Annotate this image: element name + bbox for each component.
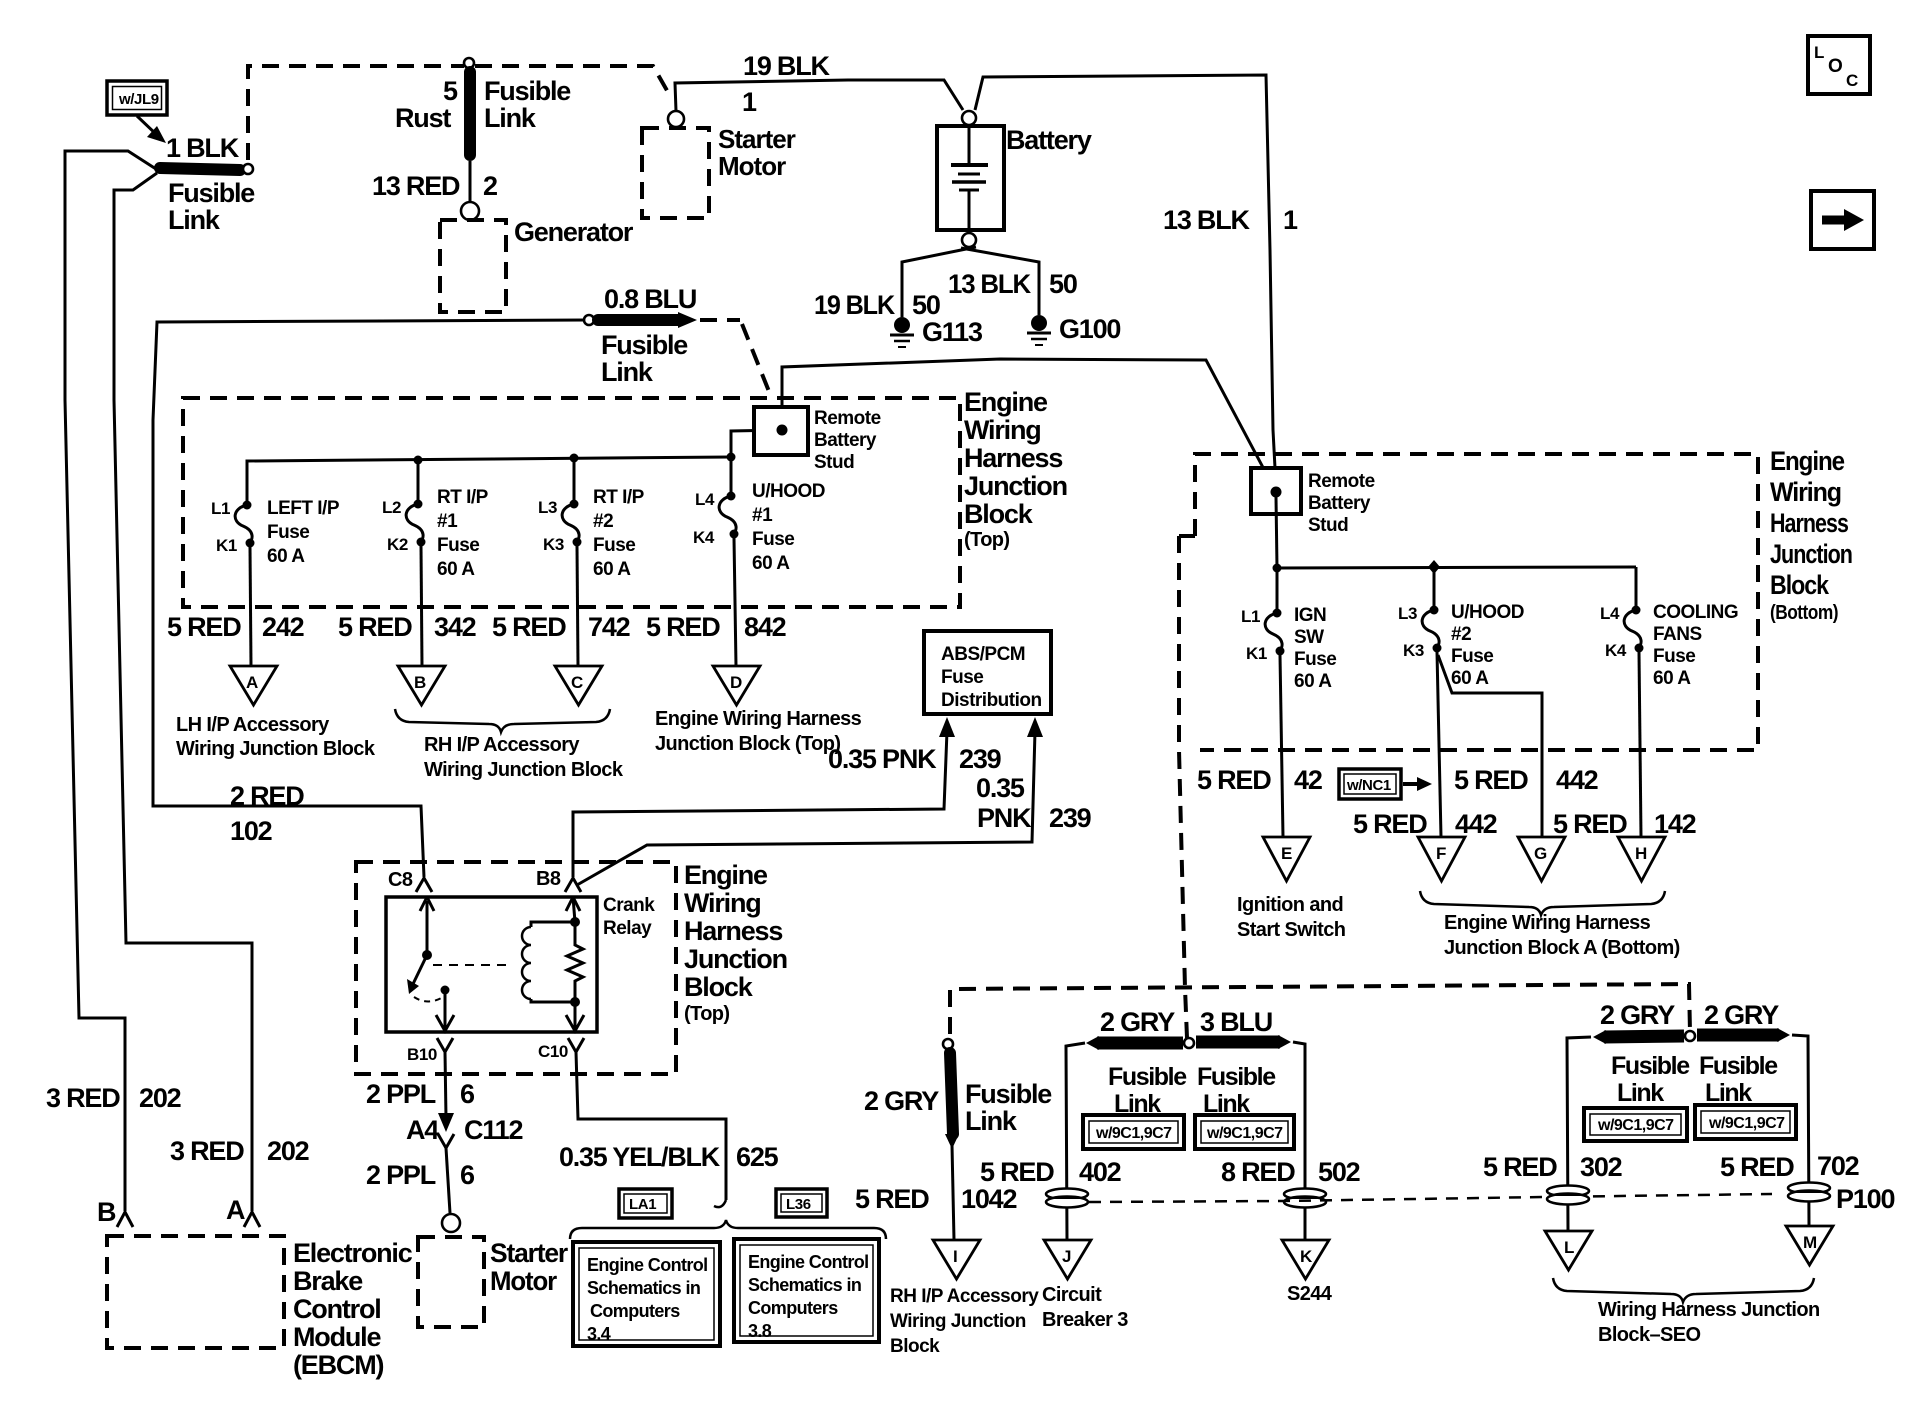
w/JL9 option box <box>107 81 167 115</box>
svg-text:Stud: Stud <box>814 452 854 473</box>
svg-text:U/HOOD: U/HOOD <box>1451 602 1524 623</box>
label Engine Wiring Harness Junction Block (Bottom) <box>1770 446 1852 624</box>
svg-text:#2: #2 <box>593 511 613 532</box>
svg-text:Block: Block <box>1770 570 1830 600</box>
battery box <box>937 126 1004 230</box>
svg-text:A: A <box>226 1195 245 1225</box>
label A4 C112 <box>406 1115 522 1145</box>
svg-text:Junction Block (Top): Junction Block (Top) <box>655 733 840 755</box>
svg-text:60 A: 60 A <box>1451 668 1489 689</box>
svg-text:Motor: Motor <box>490 1266 558 1296</box>
svg-text:102: 102 <box>230 816 272 846</box>
connector fork C8 <box>416 878 432 892</box>
svg-text:#1: #1 <box>437 511 458 532</box>
svg-text:Block–SEO: Block–SEO <box>1598 1324 1700 1346</box>
svg-text:60 A: 60 A <box>267 546 305 567</box>
fuse RT I/P #1 60A <box>406 460 425 547</box>
svg-text:Fuse: Fuse <box>437 535 479 556</box>
label 5 RED 302 <box>1483 1152 1622 1182</box>
fusible link (1 BLK) <box>160 164 253 174</box>
arrow into ABS/PCM (right) <box>1027 717 1043 737</box>
fusible link (5 Rust), vertical <box>464 58 474 155</box>
svg-text:(EBCM): (EBCM) <box>293 1350 383 1380</box>
svg-text:Brake: Brake <box>293 1266 363 1296</box>
fuse U/HOOD #1 60A <box>719 457 738 539</box>
wire bus to remote battery stud <box>731 430 780 457</box>
svg-text:842: 842 <box>744 612 786 642</box>
svg-text:C: C <box>1846 71 1858 90</box>
svg-text:K4: K4 <box>693 528 715 547</box>
connector triangle A <box>230 666 277 705</box>
starter motor dashed box (bottom) <box>418 1237 484 1327</box>
svg-text:B: B <box>414 673 426 692</box>
svg-text:2 PPL: 2 PPL <box>366 1160 436 1190</box>
engine wiring harness junction block (top) crank relay dashed box <box>356 862 676 1074</box>
svg-text:K1: K1 <box>216 536 237 555</box>
connector triangle B <box>398 666 445 705</box>
connector fork B8 <box>565 878 581 892</box>
wire K3 to C <box>577 546 578 666</box>
svg-text:Junction: Junction <box>964 471 1067 501</box>
w/9C1,9C7 tag box (left) <box>1083 1115 1184 1149</box>
svg-text:K4: K4 <box>1605 641 1627 660</box>
connector triangle D <box>713 666 760 705</box>
svg-text:A: A <box>246 673 258 692</box>
wire stud to bus 2 <box>1276 497 1277 568</box>
label 5 RED 842 <box>646 612 786 642</box>
label Fusible Link (SEO left) <box>1611 1052 1690 1107</box>
svg-text:(Top): (Top) <box>684 1003 730 1025</box>
wire 0.8 BLU feed (left horizontal + left vertical down to 2 RED) <box>153 320 586 877</box>
svg-text:K3: K3 <box>1403 641 1424 660</box>
svg-text:8 RED: 8 RED <box>1221 1157 1295 1187</box>
svg-text:Engine Control: Engine Control <box>587 1255 708 1275</box>
svg-text:Schematics in: Schematics in <box>748 1275 861 1295</box>
label L1 K1 <box>211 499 237 555</box>
svg-text:13 BLK: 13 BLK <box>948 269 1032 299</box>
svg-text:Wiring Junction Block: Wiring Junction Block <box>176 738 376 760</box>
w/9C1,9C7 tag box (right) <box>1195 1115 1294 1149</box>
inline connector at M / P100 <box>1788 1183 1830 1202</box>
w/9C1,9C7 tag box (SEO right) <box>1695 1105 1796 1139</box>
label 5 RED 442 (lower) <box>1353 809 1497 839</box>
svg-text:C: C <box>571 673 583 692</box>
svg-text:L36: L36 <box>786 1196 811 1213</box>
svg-text:A4: A4 <box>406 1115 439 1145</box>
label L4 K4 (bottom block) <box>1600 604 1627 660</box>
label 5 RED 342 <box>338 612 476 642</box>
svg-text:442: 442 <box>1556 765 1598 795</box>
wire K2 to B <box>421 546 422 666</box>
svg-text:B8: B8 <box>536 868 561 890</box>
svg-text:1 BLK: 1 BLK <box>166 133 240 163</box>
svg-text:Engine: Engine <box>1770 446 1845 476</box>
connector triangle H <box>1618 837 1665 881</box>
svg-text:w/NC1: w/NC1 <box>1346 777 1391 794</box>
svg-text:5 RED: 5 RED <box>1483 1152 1557 1182</box>
LA1 tag box <box>619 1189 672 1218</box>
svg-text:G113: G113 <box>922 317 983 347</box>
svg-text:Fuse: Fuse <box>593 535 635 556</box>
node fusible link junction <box>1184 1038 1194 1048</box>
svg-text:625: 625 <box>736 1142 779 1172</box>
svg-text:Harness: Harness <box>1770 508 1848 538</box>
fuse U/HOOD #2 60A <box>1422 567 1441 653</box>
svg-text:Fusible: Fusible <box>965 1079 1052 1109</box>
connector triangle C <box>555 666 602 705</box>
label Engine Wiring Harness Junction Block (Top) <box>964 387 1067 551</box>
wire end squiggle <box>714 1200 726 1207</box>
label Starter Motor <box>718 124 796 181</box>
svg-text:IGN: IGN <box>1294 605 1326 626</box>
label Electronic Brake Control Module (EBCM) <box>293 1238 413 1380</box>
svg-text:Battery: Battery <box>814 430 877 451</box>
label 5 RED 702 <box>1720 1151 1859 1182</box>
remote battery stud (engine compartment) <box>754 407 808 455</box>
label 5 RED 42 <box>1197 765 1322 795</box>
label L1 K1 (bottom block) <box>1241 607 1267 663</box>
svg-text:5 RED: 5 RED <box>492 612 566 642</box>
svg-text:Computers: Computers <box>590 1301 680 1321</box>
svg-text:K3: K3 <box>543 535 564 554</box>
label 5 RED 442 (upper) <box>1454 765 1598 795</box>
svg-text:202: 202 <box>139 1083 181 1113</box>
connector C112 <box>438 1113 454 1148</box>
label Fusible Link (SEO right) <box>1699 1052 1778 1107</box>
bus wire in bottom junction block <box>1277 567 1636 568</box>
node bus2 mid <box>1428 560 1440 574</box>
wire 19 BLK (starter to battery to 13 BLK) <box>675 80 963 111</box>
svg-text:Fusible: Fusible <box>168 178 255 208</box>
label 5 RED 242 <box>167 612 304 642</box>
svg-text:P100: P100 <box>1836 1184 1894 1214</box>
svg-text:302: 302 <box>1580 1152 1622 1182</box>
svg-text:L1: L1 <box>1241 607 1260 626</box>
svg-text:RT I/P: RT I/P <box>593 487 645 508</box>
engine control schematics box 3.8 <box>734 1239 879 1342</box>
svg-text:F: F <box>1436 844 1446 863</box>
label U/HOOD #1 Fuse 60 A <box>752 481 825 574</box>
svg-text:702: 702 <box>1817 1151 1859 1181</box>
svg-text:239: 239 <box>959 744 1002 774</box>
svg-text:242: 242 <box>262 612 304 642</box>
svg-text:5 RED: 5 RED <box>1197 765 1271 795</box>
svg-text:502: 502 <box>1318 1157 1360 1187</box>
svg-text:5 RED: 5 RED <box>980 1157 1054 1187</box>
svg-text:G: G <box>1534 844 1547 863</box>
svg-text:H: H <box>1635 844 1647 863</box>
arrow from w/JL9 box to fusible link label <box>137 116 166 143</box>
svg-text:Fusible: Fusible <box>601 330 688 360</box>
svg-text:Battery: Battery <box>1006 125 1092 155</box>
battery bottom terminal circle <box>962 233 976 247</box>
svg-text:1: 1 <box>1283 205 1298 235</box>
svg-text:Fuse: Fuse <box>1451 646 1493 667</box>
svg-text:C10: C10 <box>538 1042 568 1061</box>
svg-text:ABS/PCM: ABS/PCM <box>941 644 1025 665</box>
fuse RT I/P #2 60A <box>562 458 581 547</box>
svg-text:239: 239 <box>1049 803 1092 833</box>
svg-text:2 PPL: 2 PPL <box>366 1079 436 1109</box>
svg-text:Wiring: Wiring <box>964 415 1041 445</box>
fusible link 2 GRY (SEO right) <box>1697 1028 1790 1042</box>
label U/HOOD #2 Fuse 60 A <box>1451 602 1524 689</box>
svg-text:LA1: LA1 <box>629 1196 656 1213</box>
label 5 RED 402 <box>980 1157 1121 1187</box>
label 0.35 PNK 239 <box>828 744 1002 774</box>
wire B8 to ABS/PCM (0.35 PNK 239) <box>573 731 947 877</box>
label Engine Wiring Harness Junction Block (Top) under D <box>655 708 862 755</box>
svg-text:Relay: Relay <box>603 918 652 939</box>
svg-text:COOLING: COOLING <box>1653 602 1738 623</box>
svg-text:Engine: Engine <box>684 860 768 890</box>
label Fusible Link (0.8 BLU) <box>601 330 688 387</box>
svg-text:202: 202 <box>267 1136 309 1166</box>
svg-text:442: 442 <box>1455 809 1497 839</box>
svg-text:w/9C1,9C7: w/9C1,9C7 <box>1597 1117 1674 1134</box>
label RT I/P #1 Fuse 60 A <box>437 487 489 580</box>
node L3 feed <box>570 454 579 463</box>
label 3 RED 202 (right) <box>170 1136 309 1166</box>
label 0.35 YEL/BLK 625 <box>559 1142 779 1172</box>
svg-text:Block: Block <box>964 499 1034 529</box>
svg-text:K1: K1 <box>1246 644 1267 663</box>
svg-text:60 A: 60 A <box>1653 668 1691 689</box>
brace RH I/P accessory <box>395 709 610 732</box>
relay resistor <box>567 917 583 1007</box>
svg-text:L3: L3 <box>538 498 557 517</box>
svg-text:42: 42 <box>1294 765 1322 795</box>
svg-text:Link: Link <box>965 1106 1018 1136</box>
svg-text:1: 1 <box>742 87 757 117</box>
svg-text:Distribution: Distribution <box>941 690 1042 711</box>
inline connector at J <box>1046 1189 1088 1208</box>
label 5 RED 742 <box>492 612 630 642</box>
svg-text:Block: Block <box>684 972 754 1002</box>
svg-text:0.35 PNK: 0.35 PNK <box>828 744 937 774</box>
svg-text:5 RED: 5 RED <box>1553 809 1627 839</box>
svg-text:6: 6 <box>460 1079 475 1109</box>
relay switch arm <box>407 897 450 1002</box>
connector triangle M <box>1786 1226 1833 1265</box>
label 3 RED 202 (left) <box>46 1083 181 1113</box>
svg-text:2 RED: 2 RED <box>230 781 304 811</box>
svg-text:Motor: Motor <box>718 151 786 181</box>
ground wire crossing to G100 <box>961 248 1039 315</box>
svg-text:D: D <box>730 673 742 692</box>
svg-text:Fusible: Fusible <box>484 76 571 106</box>
label L2 K2 <box>382 498 408 554</box>
svg-text:RT I/P: RT I/P <box>437 487 489 508</box>
svg-text:19 BLK: 19 BLK <box>743 51 831 81</box>
svg-text:Circuit: Circuit <box>1042 1284 1102 1306</box>
svg-text:Link: Link <box>168 205 221 235</box>
svg-text:Computers: Computers <box>748 1298 838 1318</box>
label Starter Motor (bottom) <box>490 1238 569 1296</box>
ground wire crossing to G113 <box>902 247 976 317</box>
engine control schematics box 3.4 <box>573 1242 720 1346</box>
label Wiring Harness Junction Block-SEO <box>1598 1299 1820 1346</box>
connector fork B <box>117 1212 133 1227</box>
svg-text:Engine: Engine <box>964 387 1048 417</box>
starter motor dashed box <box>642 128 709 218</box>
brace wiring harness junction block SEO <box>1553 1278 1814 1302</box>
svg-text:60 A: 60 A <box>593 559 631 580</box>
svg-text:60 A: 60 A <box>752 553 790 574</box>
svg-text:60 A: 60 A <box>437 559 475 580</box>
svg-text:Junction: Junction <box>684 944 787 974</box>
dashed link switch to coil <box>433 964 512 966</box>
LOC legend box <box>1808 36 1870 94</box>
label Circuit Breaker 3 <box>1042 1284 1128 1331</box>
w/NC1 option box with arrow <box>1339 769 1432 799</box>
svg-text:Breaker 3: Breaker 3 <box>1042 1309 1128 1331</box>
svg-text:w/9C1,9C7: w/9C1,9C7 <box>1095 1125 1172 1142</box>
label 5 RED 142 <box>1553 809 1696 839</box>
bus wire in junction block <box>247 457 731 505</box>
svg-text:LEFT I/P: LEFT I/P <box>267 498 340 519</box>
svg-text:5 RED: 5 RED <box>646 612 720 642</box>
generator dashed box <box>440 220 506 312</box>
svg-text:Fusible: Fusible <box>1108 1063 1187 1091</box>
label 2 RED 102 <box>230 781 304 846</box>
svg-text:L1: L1 <box>211 499 230 518</box>
label Ignition and Start Switch <box>1237 894 1345 941</box>
relay B8 pin <box>566 897 580 922</box>
svg-text:13 RED: 13 RED <box>372 171 460 201</box>
wire 13 RED 2 (link to generator) <box>469 161 472 202</box>
svg-text:Stud: Stud <box>1308 515 1348 536</box>
svg-text:3 BLU: 3 BLU <box>1200 1007 1272 1037</box>
connector triangle I <box>933 1240 980 1279</box>
svg-text:w/9C1,9C7: w/9C1,9C7 <box>1206 1125 1283 1142</box>
battery cell symbol <box>951 126 988 230</box>
fusible link 2 GRY (vertical) <box>943 1039 959 1149</box>
svg-text:Engine Wiring Harness: Engine Wiring Harness <box>655 708 862 730</box>
generator terminal circle <box>461 202 479 220</box>
connector triangle E <box>1263 837 1310 881</box>
svg-text:50: 50 <box>912 290 940 320</box>
wire K3 to G <box>1438 655 1542 837</box>
crank relay box <box>386 897 597 1032</box>
label 13 RED 2 <box>372 171 497 201</box>
svg-text:0.35: 0.35 <box>976 773 1025 803</box>
inline connector at K <box>1284 1189 1326 1208</box>
svg-text:Link: Link <box>1617 1079 1664 1107</box>
wire SEO right link to M <box>1792 1035 1809 1226</box>
svg-text:60 A: 60 A <box>1294 671 1332 692</box>
w/9C1,9C7 tag box (SEO left) <box>1584 1108 1687 1141</box>
svg-text:Fuse: Fuse <box>267 522 309 543</box>
label 13 BLK 50 <box>948 269 1077 299</box>
starter motor terminal circle <box>668 111 684 127</box>
svg-text:L3: L3 <box>1398 604 1417 623</box>
dashed feed line to bottom fusible links <box>950 984 1690 1034</box>
svg-text:3.8: 3.8 <box>748 1321 772 1341</box>
svg-text:LH I/P Accessory: LH I/P Accessory <box>176 714 330 736</box>
svg-text:Rust: Rust <box>395 103 451 133</box>
svg-text:Wiring: Wiring <box>1770 477 1841 507</box>
label COOLING FANS Fuse 60 A <box>1653 602 1738 689</box>
L36 tag box <box>776 1189 827 1217</box>
svg-text:L: L <box>1564 1238 1574 1257</box>
svg-text:Schematics in: Schematics in <box>587 1278 700 1298</box>
connector fork B10 <box>437 1038 453 1052</box>
connector fork A <box>244 1212 260 1227</box>
wire B8 diagonal to ABS/PCM (second 0.35 PNK 239) <box>577 731 1035 885</box>
node stud feed <box>727 453 736 462</box>
next-page arrow box <box>1811 191 1874 249</box>
svg-text:5 RED: 5 RED <box>167 612 241 642</box>
svg-text:(Bottom): (Bottom) <box>1770 602 1838 624</box>
label IGN SW Fuse 60 A <box>1294 605 1336 692</box>
wire K3 to F <box>1437 652 1441 837</box>
fuse LEFT I/P 60A <box>235 501 254 548</box>
label 5 Rust <box>395 76 458 133</box>
svg-text:742: 742 <box>588 612 630 642</box>
svg-text:Ignition and: Ignition and <box>1237 894 1343 916</box>
label 2 PPL 6 (upper) <box>366 1079 475 1109</box>
svg-text:2 GRY: 2 GRY <box>1704 1000 1779 1030</box>
relay C10 pin output <box>566 1002 584 1031</box>
svg-text:Wiring Junction: Wiring Junction <box>890 1311 1026 1332</box>
svg-text:5 RED: 5 RED <box>855 1184 929 1214</box>
svg-text:Harness: Harness <box>964 443 1062 473</box>
svg-text:L: L <box>1814 43 1824 62</box>
svg-text:C8: C8 <box>388 869 413 891</box>
svg-text:SW: SW <box>1294 627 1324 648</box>
svg-text:L4: L4 <box>695 490 715 509</box>
dashed splice line <box>1089 1194 1772 1202</box>
svg-text:Wiring: Wiring <box>684 888 761 918</box>
svg-text:50: 50 <box>1049 269 1077 299</box>
label LEFT I/P Fuse 60 A <box>267 498 340 567</box>
svg-text:2 GRY: 2 GRY <box>1100 1007 1175 1037</box>
svg-text:U/HOOD: U/HOOD <box>752 481 825 502</box>
svg-text:O: O <box>1828 56 1842 77</box>
connector triangle J <box>1044 1240 1091 1279</box>
svg-text:RH I/P Accessory: RH I/P Accessory <box>424 734 580 756</box>
label LH I/P Accessory Wiring Junction Block <box>176 714 376 760</box>
label 2 PPL 6 (lower) <box>366 1160 475 1190</box>
connector triangle L <box>1545 1231 1592 1270</box>
svg-text:Crank: Crank <box>603 895 655 916</box>
label RT I/P #2 Fuse 60 A <box>593 487 645 580</box>
svg-text:Fuse: Fuse <box>752 529 794 550</box>
svg-text:Block: Block <box>890 1336 940 1357</box>
dashed wire from 0.8 BLU link to junction block <box>700 320 770 394</box>
label 5 RED 1042 <box>855 1184 1016 1214</box>
svg-text:RH I/P Accessory: RH I/P Accessory <box>890 1286 1039 1307</box>
connector triangle F <box>1418 837 1465 881</box>
svg-text:w/JL9: w/JL9 <box>118 91 159 108</box>
label Engine Wiring Harness Junction Block (Top) at relay <box>684 860 787 1025</box>
connector triangle K <box>1282 1240 1329 1279</box>
wire SEO left link to L <box>1567 1037 1591 1231</box>
svg-text:#2: #2 <box>1451 624 1471 645</box>
svg-text:Starter: Starter <box>490 1238 569 1268</box>
wire from fusible link to B (left vertical) <box>65 151 156 1211</box>
svg-text:5: 5 <box>443 76 458 106</box>
wire B10 to C112 <box>445 1052 446 1118</box>
inline connector at L <box>1547 1186 1589 1205</box>
svg-text:G100: G100 <box>1059 314 1120 344</box>
svg-text:L2: L2 <box>382 498 401 517</box>
label 19 BLK 50 <box>814 290 940 320</box>
svg-text:J: J <box>1062 1247 1071 1266</box>
svg-text:Remote: Remote <box>814 408 881 429</box>
wire K1 to A <box>250 547 251 666</box>
